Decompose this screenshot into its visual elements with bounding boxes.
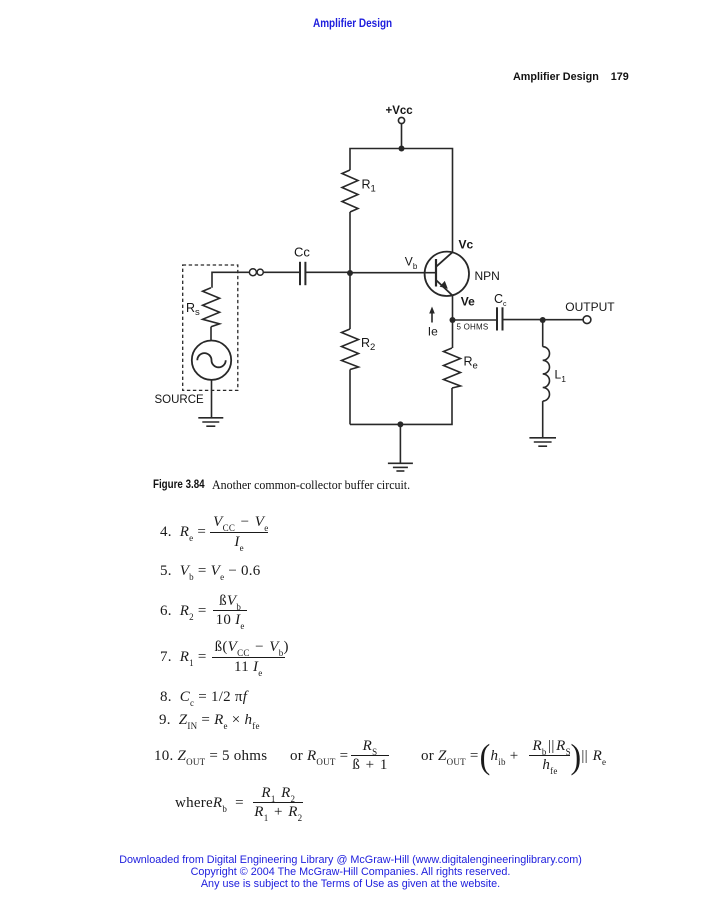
wire connector to Cc in [263, 271, 299, 273]
svg-text:Cc: Cc [294, 245, 310, 260]
svg-text:Vb: Vb [405, 255, 418, 271]
node emitter junction [450, 317, 456, 323]
+Vcc label [386, 105, 414, 117]
wire top rail [350, 149, 453, 253]
svg-text:Ie: Ie [428, 324, 438, 338]
svg-text:Rs: Rs [186, 301, 200, 318]
transistor Q1 emitter stroke [436, 280, 453, 296]
formula 6 [160, 593, 248, 629]
formula 7 [160, 639, 285, 675]
label Cc input [294, 245, 310, 260]
label Ve [461, 295, 475, 309]
source enclosure dashed box [183, 265, 238, 390]
label L1 [555, 368, 567, 384]
svg-text:NPN: NPN [475, 269, 500, 283]
wire Cc to output node [503, 319, 543, 321]
wire to output terminal [543, 319, 584, 321]
svg-text:OUTPUT: OUTPUT [565, 300, 615, 314]
label SOURCE [155, 394, 205, 406]
capacitor Cc (output) [497, 307, 503, 330]
wire R2 to bottom rail [349, 370, 351, 425]
formula where Rb [175, 785, 305, 821]
transistor Q1 circle [425, 252, 469, 296]
wire source top [212, 272, 250, 288]
figure caption [153, 480, 205, 492]
formula 9 [159, 711, 260, 729]
wire source to ground [211, 380, 213, 418]
node output junction [540, 317, 546, 323]
label R2 [361, 336, 375, 353]
transistor Q1 base bar [435, 259, 437, 287]
svg-text:R2: R2 [361, 336, 375, 353]
label Rs [186, 301, 200, 318]
wire base [350, 272, 436, 274]
label 5 OHMS [457, 323, 489, 332]
svg-text:+Vcc: +Vcc [386, 105, 414, 117]
svg-text:R1: R1 [362, 178, 376, 195]
wire ground stem [399, 424, 401, 463]
resistor Re [444, 348, 461, 388]
transistor Q1 collector stroke [436, 252, 453, 267]
node bottom junction [397, 421, 403, 427]
page header right [513, 72, 629, 83]
label Ie [428, 324, 438, 338]
resistor Rs [203, 288, 220, 327]
connector circles [249, 269, 263, 276]
wire bottom rail [350, 388, 452, 424]
circuit schematic [0, 0, 701, 500]
wire R1 to bias node [349, 212, 351, 273]
wire Cc in to bias node [305, 271, 350, 273]
header running title (blue) [313, 17, 392, 29]
+Vcc terminal [398, 117, 404, 123]
ground (source) [198, 418, 223, 426]
label R1 [362, 178, 376, 195]
label OUTPUT [565, 300, 615, 314]
resistor R1 [342, 170, 358, 212]
label Vc [459, 237, 474, 251]
svg-text:SOURCE: SOURCE [155, 394, 205, 406]
footer [0, 855, 701, 891]
node bias junction [347, 270, 353, 276]
svg-text:Ve: Ve [461, 295, 475, 309]
wire emitter down [452, 296, 454, 349]
formula 8 [160, 688, 247, 706]
resistor R2 [342, 329, 359, 370]
node Vcc junction [399, 146, 405, 152]
inductor L1 [543, 347, 550, 401]
output terminal [583, 316, 591, 324]
formula 5 [160, 562, 261, 580]
label Re [464, 355, 478, 372]
wire Rs to source [210, 327, 212, 341]
label NPN [475, 269, 500, 283]
formula 10a [154, 747, 267, 765]
formula 4 [160, 514, 268, 550]
ground (L1) [529, 438, 556, 446]
ground (bottom rail) [388, 463, 413, 471]
arrow Ie [429, 307, 435, 323]
wire L1 to ground [542, 401, 544, 438]
svg-text:Cc: Cc [494, 292, 507, 308]
svg-text:5 OHMS: 5 OHMS [457, 323, 489, 332]
capacitor Cc (input) [300, 262, 305, 285]
formula 10c [421, 738, 606, 774]
formula 10b [290, 738, 391, 774]
wire bias to R2 [349, 273, 351, 329]
wire output node to L1 [542, 320, 544, 347]
svg-text:L1: L1 [555, 368, 567, 384]
svg-text:Re: Re [464, 355, 478, 372]
source V1 sine generator [192, 341, 231, 380]
wire Vcc stub [401, 124, 403, 149]
label Cc output [494, 292, 507, 308]
label Vb [405, 255, 418, 271]
svg-text:Vc: Vc [459, 237, 474, 251]
wire emitter node to Cc out [453, 319, 497, 321]
